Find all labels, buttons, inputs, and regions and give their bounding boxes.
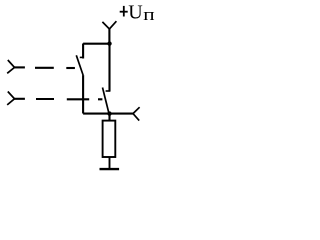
wire: S1 lower lead down to bottom rail — [82, 75, 84, 113]
control input terminal X2 (fork, lower) — [7, 92, 25, 105]
dashed control link X1 to S1: dash 1 — [35, 67, 54, 69]
svg-text:п: п — [143, 6, 154, 25]
svg-text:U: U — [128, 2, 143, 24]
switch S2 movable contact arm — [103, 88, 109, 114]
wire: bottom rail from S1 branch to output fork — [83, 113, 133, 115]
ground (common rail bar) — [100, 168, 120, 170]
wire: top rail from switch S1 column to node A — [83, 43, 109, 45]
node A (junction dot at top of divider) — [107, 41, 111, 45]
output terminal X4 (fork, right) — [133, 107, 140, 120]
node B (junction dot at output) — [107, 111, 111, 115]
dashed control link X2 to S2: dash 2 (crosses S1 branch) — [67, 98, 89, 100]
wire: node B down to resistor R1 — [108, 114, 110, 121]
dashed control link X2 to S2: dash 3 — [98, 98, 102, 100]
switch S1 fixed contact lead — [82, 44, 84, 59]
plus sign of +Uп — [120, 6, 128, 17]
switch S2 fixed contact lead (from node A) — [108, 44, 110, 92]
switch S2 fixed contact tick — [106, 90, 111, 92]
resistor R1 (load) — [103, 121, 116, 157]
switch S1 movable contact arm — [76, 55, 83, 75]
power input terminal X3 (fork to +Uп) — [102, 21, 116, 43]
power net label +Uп — [128, 2, 154, 25]
switch S1 fixed contact tick — [80, 56, 84, 58]
wire: resistor R1 to ground — [109, 157, 111, 169]
dashed control link X2 to S2: dash 1 — [36, 98, 54, 100]
control input terminal X1 (fork, upper) — [7, 60, 25, 73]
dashed control link X1 to S1: dash 2 — [66, 67, 75, 69]
